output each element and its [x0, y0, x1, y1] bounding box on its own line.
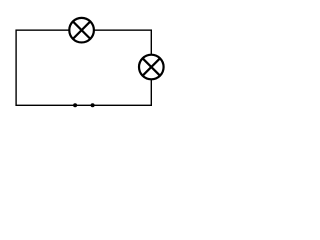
junction dot A: [73, 103, 77, 107]
lamp L1 (top): [69, 18, 94, 43]
junction dot B: [91, 103, 95, 107]
lamp L2 (right): [139, 55, 164, 80]
wire loop (rectangular circuit path): [16, 30, 151, 105]
